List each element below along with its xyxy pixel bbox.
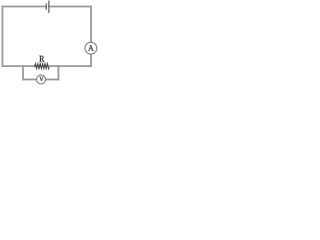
- wire top-right segment: [49, 6, 91, 8]
- wire voltmeter branch left drop: [22, 66, 24, 79]
- ammeter A1 letter: [88, 45, 94, 51]
- battery cell B1 long (positive) plate: [48, 1, 50, 13]
- wire voltmeter branch left horizontal: [23, 79, 37, 81]
- wire resistor-right to right junction: [49, 65, 58, 67]
- wire left side: [1, 7, 3, 67]
- battery cell B1 short (negative) plate: [45, 3, 47, 9]
- wire right side lower: [90, 54, 92, 66]
- wire bottom-right segment: [58, 65, 91, 67]
- label R: [39, 56, 44, 62]
- voltmeter V1 letter: [39, 77, 43, 81]
- wire voltmeter branch right horizontal: [46, 79, 59, 81]
- wire right side upper: [90, 7, 92, 43]
- voltmeter V1 circle: [37, 75, 46, 84]
- resistor R zigzag: [35, 64, 49, 68]
- wire voltmeter branch right riser: [57, 66, 59, 79]
- ammeter A1 circle: [85, 42, 97, 54]
- wire top-left segment: [2, 6, 46, 8]
- wire bottom-left segment: [2, 65, 34, 67]
